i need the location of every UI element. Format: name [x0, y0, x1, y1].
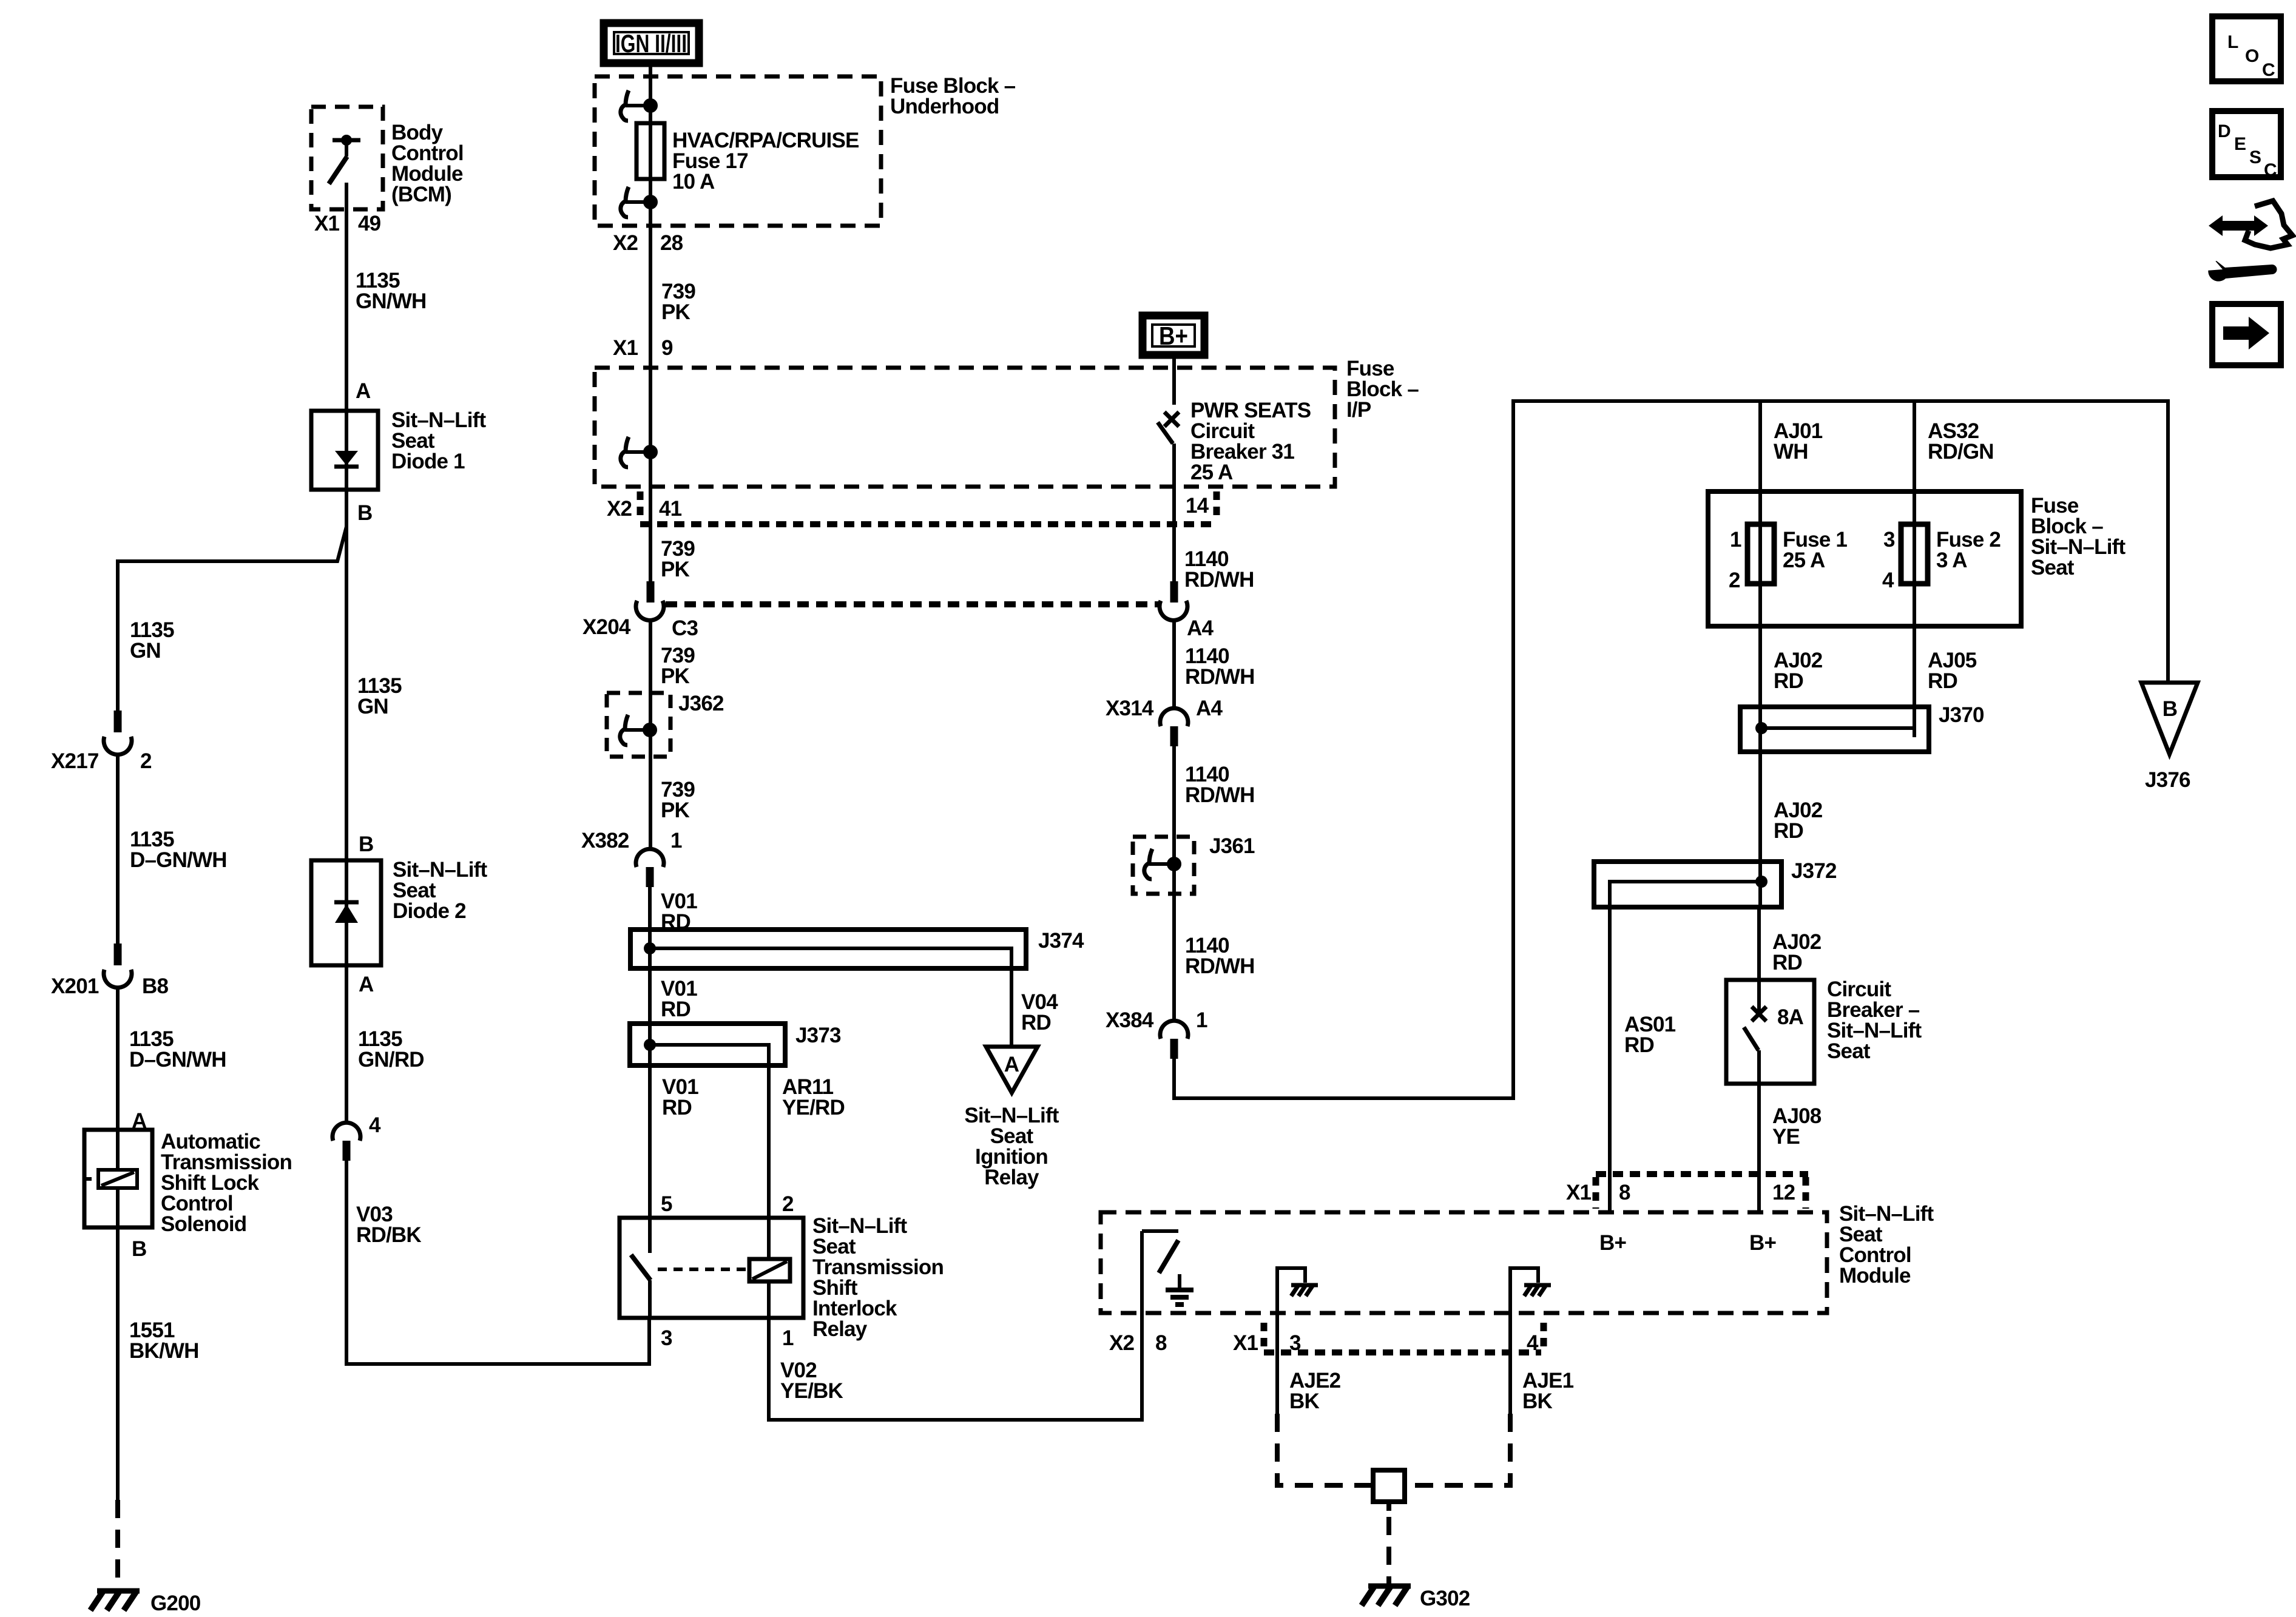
wire label AR11 YE/RD: [782, 1075, 845, 1119]
svg-text:2: 2: [782, 1192, 794, 1216]
svg-text:(BCM): (BCM): [391, 183, 451, 206]
connector X204 pin A4: [1160, 581, 1214, 640]
wire label 1140 RD/WH (above A4): [1184, 547, 1254, 592]
splice J361 dashed box: [1133, 834, 1255, 894]
svg-text:1: 1: [1196, 1008, 1207, 1032]
dashed wire to G200: [115, 1500, 120, 1588]
svg-text:1: 1: [1730, 528, 1741, 552]
svg-text:X1: X1: [314, 212, 340, 235]
wire AR11 YE/RD from J373 to relay pin 2: [767, 1065, 771, 1218]
wire 739 PK to X1 9: [649, 226, 652, 368]
svg-text:RD/GN: RD/GN: [1928, 440, 1994, 464]
svg-text:RD: RD: [662, 1096, 692, 1119]
svg-text:Solenoid: Solenoid: [161, 1212, 246, 1236]
node B (diode 1 bottom): [357, 501, 372, 525]
svg-text:GN/RD: GN/RD: [358, 1048, 424, 1072]
fuse HVAC/RPA/CRUISE Fuse 17 10 A: [636, 123, 664, 179]
svg-text:X384: X384: [1106, 1008, 1154, 1032]
svg-text:C: C: [2262, 60, 2275, 80]
svg-text:YE: YE: [1772, 1125, 1800, 1149]
node A (solenoid top): [132, 1109, 147, 1133]
diode 1 label text: [391, 408, 486, 473]
svg-text:25 A: 25 A: [1190, 461, 1233, 484]
svg-text:C: C: [2264, 160, 2277, 180]
Sit-N-Lift Seat Diode 2: [311, 860, 381, 965]
wire AJ01 WH branch: [1758, 401, 1762, 493]
splice bus J370: [1740, 703, 1984, 752]
wire AJE1 BK: [1508, 1313, 1512, 1414]
pin labels X2 41: [607, 497, 682, 521]
svg-text:41: 41: [659, 497, 682, 521]
svg-text:D–GN/WH: D–GN/WH: [130, 848, 227, 872]
wire AS01 RD from J372 to module X1 8: [1608, 907, 1612, 1212]
svg-text:B: B: [132, 1237, 146, 1261]
wire label AJ02 RD: [1774, 649, 1823, 693]
splice bus J374: [630, 929, 1084, 968]
splice bus J373: [630, 1024, 841, 1065]
in-line dotted connector strip X1 (module top): [1596, 1174, 1808, 1209]
svg-text:O: O: [2245, 46, 2259, 66]
connector marker 14 (dotted tick): [1214, 491, 1220, 522]
clip terminal top (fuse 17 feed): [621, 90, 656, 121]
svg-text:BK: BK: [1522, 1389, 1552, 1413]
ground splice block: [1373, 1470, 1405, 1511]
svg-text:B: B: [2163, 697, 2177, 721]
svg-text:1: 1: [670, 829, 682, 852]
wire label 739 PK: [661, 280, 695, 324]
wire label 739 PK (above X204): [661, 537, 695, 581]
svg-text:A4: A4: [1196, 697, 1223, 720]
wire label 1140 RD/WH (below J361): [1185, 934, 1255, 978]
svg-text:3: 3: [661, 1326, 672, 1350]
svg-text:2: 2: [1729, 569, 1740, 592]
svg-text:YE/BK: YE/BK: [780, 1379, 843, 1403]
wire label 739 PK (below J362): [661, 778, 695, 822]
svg-text:X217: X217: [51, 749, 99, 773]
Automatic Transmission Shift Lock Control Solenoid: [84, 1130, 152, 1227]
wire label 1135 D-GN/WH lower: [129, 1027, 226, 1072]
svg-text:X1: X1: [1233, 1331, 1258, 1355]
wire 1140 RD/WH to X204 A4: [1172, 487, 1176, 581]
svg-text:Diode 2: Diode 2: [393, 899, 466, 923]
wire label 1551 BK/WH: [129, 1318, 199, 1363]
clip terminal inside I/P block: [621, 368, 656, 487]
svg-text:Seat: Seat: [2031, 556, 2075, 579]
clip terminal bottom of fuse 17: [621, 187, 656, 217]
wire from diode 1 B branching left: [118, 490, 346, 712]
svg-text:D–GN/WH: D–GN/WH: [129, 1048, 226, 1072]
fuse 17 label text: [672, 129, 859, 194]
pin labels X1 49: [314, 212, 381, 235]
svg-text:B: B: [359, 832, 373, 856]
svg-text:RD: RD: [1021, 1011, 1051, 1035]
wire label AS32 RD/GN: [1928, 419, 1994, 464]
svg-text:PK: PK: [661, 558, 690, 581]
svg-text:RD/WH: RD/WH: [1185, 783, 1255, 807]
diode 2 label text: [393, 858, 487, 923]
svg-text:GN: GN: [357, 695, 388, 718]
wire V02 YE/BK from relay pin 1 to module X2 8: [769, 1313, 1142, 1420]
wire 739 PK to J362: [649, 618, 652, 849]
hand with arrow icon: [2209, 201, 2292, 248]
relay pin labels 3 and 1: [661, 1326, 794, 1350]
wire label AS01 RD: [1624, 1013, 1676, 1057]
svg-text:Relay: Relay: [812, 1317, 868, 1341]
wire label AJ05 RD: [1928, 649, 1977, 693]
svg-text:X1: X1: [1566, 1181, 1592, 1204]
ignition relay label text: [964, 1104, 1059, 1189]
wire 1135 GN continuing down to diode 2: [345, 527, 348, 860]
fuse 1 25 A: [1729, 491, 1847, 718]
wire V01 RD to J374: [648, 882, 652, 930]
connector X384 pin 1: [1106, 1008, 1207, 1059]
Sit-N-Lift Seat Ignition Relay triangle A: [986, 1047, 1038, 1093]
svg-text:1: 1: [782, 1326, 794, 1350]
earth ground inside module: [1166, 1274, 1194, 1305]
wrench icon: [2206, 257, 2277, 282]
svg-text:B+: B+: [1159, 322, 1188, 350]
svg-text:X2: X2: [607, 497, 632, 521]
svg-text:Diode 1: Diode 1: [391, 450, 465, 473]
wire label AJ02 RD (mid): [1774, 798, 1823, 843]
wire label 1140 RD/WH (above X314): [1185, 644, 1255, 689]
svg-text:RD/WH: RD/WH: [1185, 954, 1255, 978]
svg-text:A: A: [359, 973, 374, 996]
case ground pin X1 3: [1277, 1268, 1318, 1313]
node B+ (pin 8): [1599, 1231, 1626, 1255]
wire label AJE2 BK: [1289, 1369, 1341, 1413]
module top pin labels X1 8 12: [1566, 1181, 1795, 1204]
wire label V03 RD/BK: [356, 1203, 421, 1247]
svg-text:RD: RD: [1624, 1033, 1654, 1057]
svg-text:14: 14: [1186, 494, 1209, 518]
svg-text:RD: RD: [1928, 669, 1957, 693]
svg-text:3: 3: [1883, 528, 1895, 552]
wire AJ08 YE from breaker to module X1 12: [1757, 1084, 1761, 1212]
case ground pin 4: [1510, 1268, 1551, 1313]
svg-text:RD/BK: RD/BK: [356, 1223, 421, 1247]
svg-text:4: 4: [1882, 569, 1894, 592]
splice bus J372: [1594, 859, 1837, 907]
BCM internal switch contact: [329, 135, 360, 184]
svg-text:PK: PK: [661, 798, 690, 822]
svg-text:X204: X204: [582, 615, 631, 639]
node A (diode 2 bottom): [359, 973, 374, 996]
wire label 1135 GN (left rail): [130, 618, 174, 663]
wire label 1135 GN (right rail): [357, 674, 402, 718]
wire AJ02 RD from J372 to circuit breaker: [1757, 907, 1761, 980]
connector X217 pin 2: [51, 711, 152, 773]
connector X201 pin B8: [51, 944, 168, 998]
svg-text:10 A: 10 A: [672, 170, 715, 194]
wire label V01 RD (above J374): [661, 890, 697, 934]
in-line harness dotted link X2/14: [640, 521, 1215, 527]
svg-text:Relay: Relay: [984, 1166, 1039, 1189]
wire AJ05 RD from fuse 2 to J370: [1913, 626, 1916, 728]
svg-text:J362: J362: [678, 692, 724, 715]
dashed wire to G302: [1386, 1517, 1391, 1585]
svg-text:B: B: [357, 501, 372, 525]
node B+ (pin 12): [1749, 1231, 1776, 1255]
wire label 1135 D-GN/WH: [130, 828, 227, 872]
wire label 1140 RD/WH (above J361): [1185, 763, 1255, 807]
wire label AJ02 RD (lower): [1772, 930, 1822, 974]
svg-text:L: L: [2227, 32, 2238, 52]
wire label 1135 GN/RD: [358, 1027, 424, 1072]
wire label 739 PK (above J362): [661, 644, 695, 688]
svg-text:A: A: [356, 379, 371, 403]
wire AJ02 RD from J370 to J372: [1758, 752, 1762, 862]
node A (diode 1 top): [356, 379, 371, 403]
svg-text:RD: RD: [661, 998, 690, 1021]
svg-text:RD/WH: RD/WH: [1184, 568, 1254, 592]
svg-text:Seat: Seat: [1827, 1039, 1871, 1063]
connector X382 pin 1: [581, 829, 682, 887]
wire 1135 GN/WH from BCM down to diode 1: [345, 183, 348, 411]
label J376: [2145, 768, 2190, 792]
ring terminal triangle B to J376: [2141, 683, 2198, 754]
Circuit Breaker - Sit-N-Lift Seat 8A: [1726, 980, 1814, 1084]
module label text: [1839, 1202, 1934, 1288]
fuse block sit-n-lift label: [2031, 494, 2125, 579]
svg-text:Underhood: Underhood: [890, 95, 999, 118]
svg-text:GN: GN: [130, 639, 161, 663]
svg-text:12: 12: [1772, 1181, 1795, 1204]
wire routing from X384 up to right-side feed: [1174, 401, 2168, 1098]
svg-text:YE/RD: YE/RD: [782, 1096, 845, 1119]
fuse block I/P label: [1346, 357, 1419, 422]
wire 1140 RD/WH to J361: [1172, 741, 1176, 1021]
pin labels X1 9: [613, 336, 673, 360]
svg-text:IGN II/III: IGN II/III: [615, 29, 687, 58]
svg-text:S: S: [2249, 147, 2261, 167]
svg-text:49: 49: [358, 212, 381, 235]
node B (diode 2 top): [359, 832, 373, 856]
svg-text:4: 4: [369, 1113, 381, 1137]
fuse 2 3 A: [1882, 491, 2001, 737]
svg-text:J376: J376: [2145, 768, 2190, 792]
circuit breaker label text: [1827, 977, 1922, 1063]
svg-text:B+: B+: [1749, 1231, 1776, 1255]
svg-text:J374: J374: [1038, 929, 1084, 953]
wire label AJE1 BK: [1522, 1369, 1574, 1413]
pin label 14: [1186, 494, 1209, 518]
Sit-N-Lift Seat Diode 1: [311, 411, 378, 490]
svg-text:PK: PK: [661, 300, 690, 324]
svg-text:E: E: [2234, 134, 2246, 154]
svg-text:C3: C3: [672, 616, 698, 640]
connector marker X2 (dotted tick): [637, 491, 644, 522]
svg-text:Module: Module: [1839, 1264, 1911, 1288]
svg-text:X314: X314: [1106, 697, 1154, 720]
wire V03 RD/BK from BCM diode rail to relay pin 3: [346, 1153, 649, 1364]
PWR SEATS Circuit Breaker 31 25 A: [1158, 412, 1179, 487]
connector X314 pin A4: [1106, 697, 1223, 746]
ground G302: [1362, 1586, 1470, 1610]
wire AS32 RD/GN branch: [1913, 401, 1916, 493]
dashed ground path to splice: [1277, 1414, 1510, 1485]
svg-text:B8: B8: [142, 974, 168, 998]
svg-text:28: 28: [660, 231, 683, 255]
svg-text:2: 2: [140, 749, 152, 773]
Fuse Block - Sit-N-Lift Seat box: [1708, 491, 2021, 626]
svg-text:RD: RD: [1774, 669, 1803, 693]
wire label V01 RD (to relay): [662, 1075, 698, 1119]
svg-text:G302: G302: [1420, 1587, 1470, 1610]
svg-text:I/P: I/P: [1346, 398, 1371, 422]
svg-text:A: A: [1004, 1053, 1019, 1076]
DESC corner box: [2212, 111, 2281, 180]
svg-text:J361: J361: [1209, 834, 1255, 858]
svg-text:9: 9: [661, 336, 673, 360]
svg-text:BK/WH: BK/WH: [129, 1339, 199, 1363]
svg-text:3 A: 3 A: [1936, 549, 1967, 572]
svg-text:WH: WH: [1774, 440, 1808, 464]
svg-text:X2: X2: [1109, 1331, 1135, 1355]
wire 1135 GN/RD diode2 to connector 4: [345, 965, 348, 1123]
LOC corner box: [2212, 16, 2281, 81]
svg-text:J370: J370: [1939, 703, 1984, 727]
wire V04 RD from J374 to ignition relay triangle: [1010, 968, 1013, 1047]
connector 4 on BCM rail: [333, 1113, 381, 1161]
wire AJ02 RD from fuse 1 to J370: [1758, 626, 1762, 707]
svg-text:RD: RD: [1774, 819, 1803, 843]
svg-text:B+: B+: [1599, 1231, 1626, 1255]
B+ power badge: [1143, 316, 1204, 355]
IGN II/III power badge: [604, 23, 699, 63]
wire label V01 RD (below J374): [661, 977, 697, 1021]
wire from IGN badge into fuse block: [649, 63, 652, 226]
svg-text:J372: J372: [1791, 859, 1837, 883]
module pin labels X2 8: [1109, 1331, 1167, 1355]
svg-text:PK: PK: [661, 664, 690, 688]
connector X204 pin C3: [582, 581, 698, 640]
svg-text:RD: RD: [1772, 951, 1802, 974]
svg-text:X382: X382: [581, 829, 629, 852]
svg-text:8: 8: [1619, 1181, 1630, 1204]
svg-text:BK: BK: [1289, 1389, 1319, 1413]
wire from B+ badge into I/P block: [1172, 355, 1176, 405]
wire 1135 D-GN/WH to X201: [116, 754, 120, 945]
svg-text:25 A: 25 A: [1783, 549, 1825, 572]
Sit-N-Lift Seat Control Module dashed box: [1101, 1212, 1827, 1313]
Body Control Module (BCM) dashed box: [311, 107, 383, 209]
svg-text:G200: G200: [150, 1592, 201, 1615]
forward arrow corner box: [2212, 304, 2281, 365]
svg-text:GN/WH: GN/WH: [356, 289, 427, 313]
in-line dotted connector strip X1 (below module): [1264, 1323, 1544, 1352]
svg-text:5: 5: [661, 1192, 672, 1216]
Fuse Block - I/P dashed box: [595, 368, 1335, 487]
module pin label 4: [1527, 1331, 1539, 1355]
svg-text:D: D: [2218, 121, 2231, 141]
svg-text:8: 8: [1155, 1331, 1167, 1355]
module pin labels X1 3: [1233, 1331, 1301, 1355]
Sit-N-Lift Seat Transmission Shift Interlock Relay box: [620, 1218, 803, 1318]
svg-text:A4: A4: [1187, 616, 1214, 640]
relay pin labels 5 and 2: [661, 1192, 794, 1216]
wire AJE2 BK: [1275, 1313, 1279, 1414]
pin labels X2 28: [613, 231, 683, 255]
interlock relay label text: [812, 1214, 944, 1341]
svg-text:X1: X1: [613, 336, 638, 360]
fuse block underhood label: [890, 74, 1016, 118]
wire label AJ08 YE: [1772, 1104, 1822, 1149]
Fuse Block - Underhood dashed box: [595, 76, 881, 226]
wire 1140 RD/WH to X314: [1172, 618, 1176, 709]
wire 739 PK to X204: [649, 487, 652, 581]
wire label V04 RD: [1021, 990, 1058, 1035]
module internal switch to ground (X2 8): [1142, 1231, 1178, 1313]
solenoid label text: [161, 1130, 292, 1236]
splice J362 dashed box: [607, 692, 724, 757]
BCM label text: [391, 121, 464, 206]
wire 1551 BK/WH down: [116, 1227, 120, 1500]
wire V01 RD between J374 and J373: [648, 968, 652, 1024]
wire V01 RD from J373 to relay pin 5: [648, 1065, 652, 1218]
node B (solenoid bottom): [132, 1237, 146, 1261]
svg-text:X2: X2: [613, 231, 638, 255]
wire label V02 YE/BK: [780, 1359, 843, 1403]
svg-text:J373: J373: [795, 1024, 841, 1047]
svg-text:X201: X201: [51, 974, 99, 998]
breaker 31 label text: [1190, 399, 1311, 484]
svg-text:RD/WH: RD/WH: [1185, 665, 1255, 689]
wire 1135 D-GN/WH to solenoid: [116, 987, 120, 1130]
svg-text:8A: 8A: [1777, 1005, 1804, 1029]
wire label 1135 GN/WH: [356, 269, 427, 313]
wire label AJ01 WH: [1774, 419, 1823, 464]
ground G200: [90, 1591, 201, 1615]
in-line harness dotted link X204: [666, 601, 1159, 607]
